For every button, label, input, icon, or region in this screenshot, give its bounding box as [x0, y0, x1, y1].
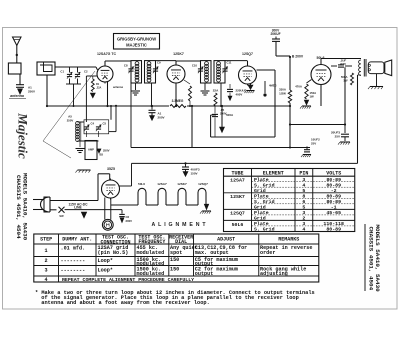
svg-text:Grid: Grid — [254, 205, 266, 211]
svg-text:C10: C10 — [192, 64, 198, 68]
svg-text:25V: 25V — [335, 134, 340, 138]
svg-text:1W: 1W — [343, 79, 348, 83]
svg-text:80-89: 80-89 — [326, 193, 341, 199]
svg-text:Grid: Grid — [254, 216, 266, 222]
svg-text:PIN: PIN — [299, 170, 308, 176]
svg-text:12SA7: 12SA7 — [157, 182, 167, 186]
svg-text:35Z5: 35Z5 — [107, 167, 115, 171]
svg-text:CHASSIS 4501, 4504: CHASSIS 4501, 4504 — [15, 175, 22, 239]
svg-text:250V: 250V — [28, 89, 35, 93]
svg-text:5: 5 — [302, 188, 305, 194]
svg-text:250V: 250V — [67, 118, 74, 122]
svg-text:Grid: Grid — [254, 188, 266, 194]
svg-text:Plate: Plate — [254, 221, 269, 227]
svg-text:12SK7: 12SK7 — [173, 52, 184, 56]
svg-text:3: 3 — [45, 268, 48, 274]
svg-text:--------: -------- — [61, 258, 86, 264]
svg-text:3.3MEG: 3.3MEG — [172, 99, 184, 103]
svg-text:-2: -2 — [331, 188, 337, 194]
svg-text:25V: 25V — [311, 141, 316, 145]
svg-text:AMP: AMP — [88, 148, 94, 152]
svg-text:50L6: 50L6 — [232, 222, 244, 228]
svg-text:ALIGNMENT: ALIGNMENT — [152, 222, 209, 228]
svg-text:.01 mfd.: .01 mfd. — [61, 246, 86, 252]
svg-text:470A: 470A — [295, 85, 303, 89]
svg-text:1/2W: 1/2W — [279, 91, 286, 95]
svg-text:C2: C2 — [84, 70, 88, 74]
svg-text:S. Grid: S. Grid — [254, 199, 275, 205]
svg-text:2: 2 — [45, 258, 48, 264]
svg-text:80-89: 80-89 — [326, 182, 341, 188]
svg-text:80-89: 80-89 — [326, 177, 341, 183]
svg-text:REMARKS: REMARKS — [278, 236, 299, 242]
svg-text:12SK7: 12SK7 — [177, 182, 187, 186]
svg-text:B5: B5 — [100, 152, 104, 156]
svg-text:4: 4 — [302, 227, 305, 233]
svg-text:spot: spot — [170, 250, 182, 256]
svg-text:antenna: antenna — [113, 85, 124, 89]
svg-text:GRIGSBY-GRUNOW: GRIGSBY-GRUNOW — [117, 36, 156, 41]
svg-text:Plate: Plate — [254, 210, 269, 216]
svg-text:output: output — [195, 271, 214, 277]
svg-text:STEP: STEP — [40, 236, 52, 242]
svg-text:S. Grid: S. Grid — [254, 227, 275, 233]
svg-text:adjusting: adjusting — [260, 271, 288, 277]
svg-text:4: 4 — [45, 277, 48, 283]
svg-text:80-89: 80-89 — [326, 227, 341, 233]
svg-text:modulated: modulated — [137, 271, 165, 277]
svg-text:Plate: Plate — [254, 177, 269, 183]
svg-text:ADJUST: ADJUST — [217, 236, 235, 242]
svg-text:modulated: modulated — [137, 250, 165, 256]
svg-text:20KUF: 20KUF — [270, 32, 280, 36]
svg-text:6: 6 — [302, 199, 305, 205]
svg-text:MAJESTIC: MAJESTIC — [126, 43, 147, 48]
svg-text:400V: 400V — [340, 62, 346, 66]
svg-text:(pin No.5): (pin No.5) — [98, 250, 129, 256]
svg-text:Loop*: Loop* — [98, 268, 113, 274]
svg-text:8: 8 — [302, 193, 305, 199]
svg-text:VOLTS: VOLTS — [326, 170, 341, 176]
svg-text:150V: 150V — [191, 171, 198, 175]
svg-text:50L6: 50L6 — [138, 182, 145, 186]
svg-text:250V: 250V — [103, 149, 110, 153]
svg-text:2: 2 — [302, 216, 305, 222]
svg-text:400V: 400V — [236, 93, 243, 97]
svg-text:Loop*: Loop* — [98, 258, 113, 264]
svg-text:C5: C5 — [103, 121, 107, 125]
svg-text:Majestic: Majestic — [16, 112, 31, 159]
svg-text:80-89: 80-89 — [326, 199, 341, 205]
svg-text:order: order — [260, 250, 275, 256]
svg-text:Plate: Plate — [254, 193, 269, 199]
svg-text:12SQ7: 12SQ7 — [198, 182, 208, 186]
svg-text:B 200V: B 200V — [292, 55, 304, 59]
svg-text:antenna: antenna — [10, 94, 24, 98]
svg-text:3: 3 — [302, 210, 305, 216]
svg-text:.22A: .22A — [96, 87, 101, 90]
svg-text:45-65: 45-65 — [326, 210, 341, 216]
svg-text:C4: C4 — [91, 121, 95, 125]
svg-text:3: 3 — [302, 177, 305, 183]
svg-text:CHASSIS 4501, 4504: CHASSIS 4501, 4504 — [368, 227, 375, 291]
svg-text:12SQ7: 12SQ7 — [230, 211, 245, 217]
svg-text:150: 150 — [170, 266, 179, 272]
svg-text:REPEAT COMPLETE ALIGNMENT PROC: REPEAT COMPLETE ALIGNMENT PROCEDURE CARE… — [62, 277, 194, 283]
svg-text:TUBE: TUBE — [231, 170, 243, 176]
svg-text:12SQ7: 12SQ7 — [242, 52, 253, 56]
svg-text:C8: C8 — [124, 64, 128, 68]
svg-text:S. Grid: S. Grid — [254, 182, 275, 188]
svg-text:5: 5 — [302, 205, 305, 211]
svg-text:200V: 200V — [126, 219, 133, 223]
svg-text:C1: C1 — [60, 70, 64, 74]
svg-text:--------: -------- — [61, 268, 86, 274]
svg-text:500A: 500A — [226, 113, 234, 117]
svg-text:200V: 200V — [158, 116, 165, 120]
svg-text:1W: 1W — [310, 95, 315, 99]
svg-text:LINE: LINE — [74, 205, 82, 209]
svg-text:22A: 22A — [213, 89, 219, 93]
svg-text:antenna and about a foot away: antenna and about a foot away from the r… — [41, 300, 209, 306]
svg-text:3: 3 — [302, 221, 305, 227]
svg-text:1: 1 — [45, 248, 48, 254]
svg-text:12SA7: 12SA7 — [230, 178, 245, 184]
svg-text:ELEMENT: ELEMENT — [263, 170, 284, 176]
svg-text:DUMMY ANT.: DUMMY ANT. — [62, 236, 92, 242]
svg-text:150: 150 — [170, 257, 179, 263]
svg-text:-1: -1 — [331, 205, 337, 211]
svg-text:12SK7: 12SK7 — [230, 194, 245, 200]
svg-text:SW: SW — [59, 214, 64, 218]
svg-text:110-118: 110-118 — [323, 221, 344, 227]
svg-text:4: 4 — [302, 182, 305, 188]
svg-text:12SA7G TC: 12SA7G TC — [97, 52, 117, 56]
svg-text:max. output: max. output — [195, 250, 229, 256]
